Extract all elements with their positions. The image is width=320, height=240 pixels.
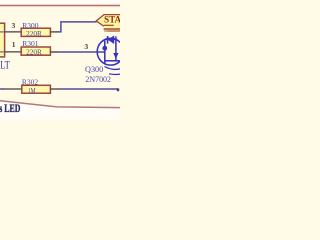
pin 1 (left component to R301) [5,51,22,53]
wire internal stub row 2 [0,51,4,53]
title block margin area below diagonal [0,101,120,120]
junction dot [102,46,107,51]
wire internal stub row 1 [0,31,4,33]
svg-text:s LED: s LED [0,103,20,116]
resistor R302 [22,78,51,96]
svg-text:Q300: Q300 [85,65,103,74]
port START (sliver below flag) [104,28,120,32]
source horizontal [105,60,120,62]
circle [97,38,124,65]
wire R300 right pin [51,31,57,33]
gate wire inside [97,51,105,53]
bottom net wire (right segment) [61,88,119,90]
body diode triangle [108,35,115,44]
svg-text:1M: 1M [28,87,36,95]
gate bar [104,41,106,65]
svg-text:R302: R302 [22,78,39,87]
drain horizontal [105,38,116,40]
arc graphic below (cropped neighbour symbol) [105,67,121,70]
wire end stub [117,88,119,91]
channel bar right [115,36,117,60]
svg-text:STA: STA [104,15,120,25]
svg-text:220R: 220R [26,29,42,38]
wire R301 to Q300 gate [51,51,57,53]
svg-text:3: 3 [84,42,88,51]
R302 right pin [50,88,61,90]
net flag START (cropped at right) [96,15,121,29]
body diode cathode bar [107,36,109,44]
resistor R300 [21,21,50,38]
resistor R301 [21,39,50,57]
pin 3 (left component to R300) [5,31,22,33]
title block line [0,101,120,108]
svg-text:3: 3 [12,21,16,30]
svg-text:R301: R301 [22,39,39,48]
connector J (left component body, cropped) [0,23,5,57]
bottom net wire (left segment) [0,88,4,90]
svg-text:1: 1 [12,40,16,49]
svg-text:2N7002: 2N7002 [85,75,111,84]
svg-text:220R: 220R [26,48,42,57]
R302 left pin [4,88,22,90]
sheet background [0,0,120,120]
wire to STA flag (elbow up) [57,22,97,32]
sheet top border [0,5,120,7]
second arc below [109,73,120,76]
source arrow [113,53,118,59]
svg-text:ULT: ULT [0,59,10,72]
transistor Q300 MOSFET symbol [97,35,124,74]
